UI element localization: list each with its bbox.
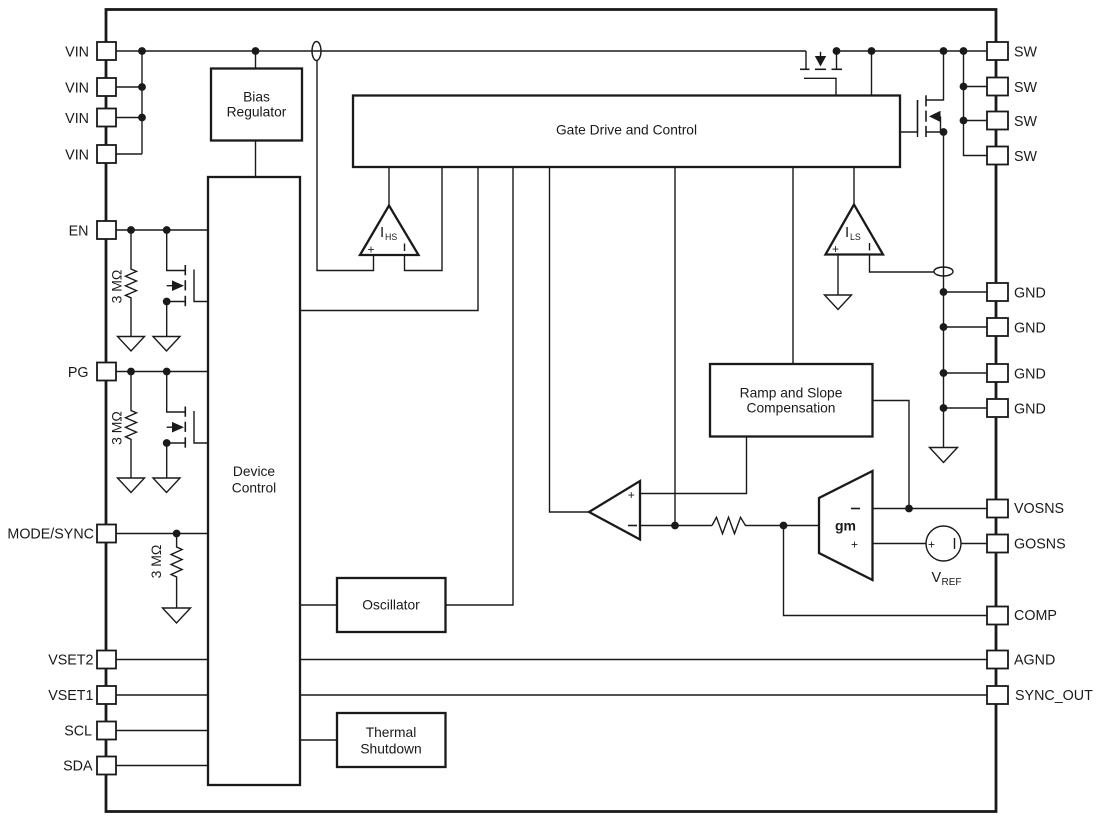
svg-text:GND: GND: [1014, 367, 1046, 383]
wire current sense from top rail loop down: [317, 61, 374, 271]
wire IHS apex to gate drive: [388, 167, 390, 206]
svg-text:+: +: [368, 243, 375, 257]
svg-text:GND: GND: [1014, 321, 1046, 337]
wire ILS plus input to ground: [837, 255, 839, 296]
svg-text:Oscillator: Oscillator: [362, 598, 420, 613]
ground at ILS plus input: [825, 295, 852, 310]
wire GND3 stub: [944, 372, 988, 374]
svg-text:VIN: VIN: [65, 148, 89, 164]
current sense loop on top rail: [312, 42, 321, 61]
svg-text:VOSNS: VOSNS: [1014, 501, 1064, 517]
pin GND2: [987, 318, 1008, 336]
wire ramp block output to vosns node: [873, 401, 910, 509]
node HS source junction: [833, 47, 841, 55]
wire SCL to device control: [116, 730, 208, 732]
svg-text:GND: GND: [1014, 402, 1046, 418]
node HS gate-drive junction: [868, 47, 876, 55]
svg-text:REF: REF: [942, 577, 962, 588]
resistor 3 Mohm at PG: [109, 372, 137, 479]
wire GND2 stub: [944, 326, 988, 328]
resistor 3 Mohm at MODE/SYNC: [148, 534, 182, 609]
wire bias regulator to device control: [255, 141, 257, 178]
pin VIN3: [97, 109, 116, 127]
pin VOSNS: [987, 500, 1008, 518]
svg-text:VIN: VIN: [65, 81, 89, 97]
wire device control to oscillator: [300, 604, 337, 606]
transistor EN pulldown FET: [167, 230, 208, 337]
node EN FET source junction: [163, 298, 171, 306]
svg-text:Shutdown: Shutdown: [360, 742, 421, 757]
pin SW2: [987, 78, 1008, 96]
wire SW pin bus: [964, 51, 988, 156]
pin SW4: [987, 147, 1008, 165]
transistor low-side FET: [900, 95, 941, 137]
node VOSNS junction: [905, 505, 913, 513]
svg-text:Ramp and Slope: Ramp and Slope: [740, 386, 843, 401]
pin MODE/SYNC: [97, 525, 116, 543]
block Thermal Shutdown: [337, 713, 446, 767]
svg-text:VIN: VIN: [65, 45, 89, 61]
pin PG: [97, 363, 116, 381]
wire HS FET source to SW rail: [836, 50, 987, 52]
svg-text:gm: gm: [835, 518, 856, 534]
svg-text:VSET1: VSET1: [48, 688, 93, 704]
wire VREF to GOSNS: [961, 543, 987, 545]
svg-text:GOSNS: GOSNS: [1014, 537, 1066, 553]
wire MODE/SYNC to device control: [116, 533, 208, 535]
ground at PG FET: [153, 478, 180, 493]
pin GOSNS: [987, 535, 1008, 553]
wire IHS output to gate drive: [405, 167, 443, 271]
wire gm minus input to VOSNS: [873, 508, 988, 510]
wire gate drive to comparator minus node: [674, 167, 676, 526]
wire device control to gate drive: [300, 167, 478, 311]
svg-text:EN: EN: [69, 224, 89, 240]
pin GND1: [987, 283, 1008, 301]
node PG FET junction: [163, 368, 171, 376]
wire HS gate to gate drive top: [871, 51, 873, 96]
pin SCL: [97, 722, 116, 740]
wire comp node to COMP pin: [784, 526, 988, 616]
ground at EN FET: [153, 337, 180, 352]
node SW bus junction: [960, 47, 968, 55]
pin VIN1: [97, 42, 116, 60]
op-amp ILS current sense: [826, 205, 884, 257]
svg-text:3 MΩ: 3 MΩ: [109, 411, 125, 445]
wire comparator output to gate drive: [550, 167, 590, 512]
node GND3 junction: [940, 369, 948, 377]
wire gm plus input to VREF: [873, 543, 927, 545]
svg-text:I: I: [380, 224, 384, 241]
wire SDA to device control: [116, 765, 208, 767]
pin VSET1: [97, 686, 116, 704]
block Bias Regulator: [211, 69, 302, 141]
svg-text:V: V: [932, 570, 942, 586]
svg-text:Regulator: Regulator: [227, 105, 287, 120]
svg-text:+: +: [832, 242, 839, 256]
wire VSET2 row and AGND row: [116, 659, 987, 661]
wire VIN4 stub: [116, 153, 142, 155]
svg-text:+: +: [628, 488, 635, 502]
pin VIN2: [97, 78, 116, 96]
node EN resistor junction: [127, 226, 135, 234]
svg-text:SW: SW: [1014, 80, 1038, 96]
wire VIN top rail to HS FET: [142, 50, 806, 52]
transistor high-side FET: [800, 51, 842, 96]
node bias feed junction: [252, 47, 260, 55]
wire SW node down to LS FET drain: [927, 51, 944, 100]
op-amp IHS current sense: [360, 206, 419, 257]
pin AGND: [987, 651, 1008, 669]
pin SW1: [987, 42, 1008, 60]
ground at GND bus bottom: [930, 448, 958, 463]
svg-text:+: +: [928, 538, 935, 552]
svg-text:Device: Device: [233, 464, 275, 479]
svg-text:SW: SW: [1014, 45, 1038, 61]
wire GND1 stub: [944, 291, 988, 293]
svg-text:SW: SW: [1014, 114, 1038, 130]
svg-text:Compensation: Compensation: [747, 401, 836, 416]
svg-text:+: +: [851, 538, 858, 552]
ground at MODE/SYNC resistor: [163, 608, 191, 623]
op-amp PWM comparator: [589, 481, 640, 540]
wire SW3 stub: [964, 120, 988, 122]
node SW to LS drain junction: [940, 47, 948, 55]
wire oscillator to gate drive: [446, 167, 514, 605]
svg-text:3 MΩ: 3 MΩ: [148, 545, 164, 579]
wire gate drive to ramp block: [792, 167, 794, 364]
node VIN1 junction: [138, 47, 146, 55]
node LS source junction: [940, 128, 948, 136]
pin EN: [97, 221, 116, 239]
wire PG to device control: [116, 371, 208, 373]
pin GND4: [987, 399, 1008, 417]
wire GND4 stub: [944, 407, 988, 409]
wire VIN3 stub: [116, 117, 142, 119]
pin SW3: [987, 112, 1008, 130]
wire LS FET source to GND bus: [927, 132, 944, 448]
ground at PG resistor: [118, 478, 145, 493]
node SW2 junction: [960, 83, 968, 91]
pin GND3: [987, 364, 1008, 382]
svg-text:SW: SW: [1014, 149, 1038, 165]
wire VIN2 stub: [116, 86, 142, 88]
op-amp gm error amplifier: [819, 471, 873, 580]
node comparator minus junction: [671, 522, 679, 530]
block Gate Drive and Control: [353, 96, 900, 168]
node COMP tap junction: [780, 522, 788, 530]
wire gm output to resistor: [748, 525, 819, 527]
wire VIN1 stub: [116, 50, 142, 52]
wire VIN bus vertical: [141, 51, 143, 154]
node PG resistor junction: [127, 368, 135, 376]
wire ramp block to comparator plus: [640, 437, 747, 494]
node SW3 junction: [960, 117, 968, 125]
node PG FET source junction: [163, 439, 171, 447]
svg-text:PG: PG: [68, 365, 89, 381]
svg-text:COMP: COMP: [1014, 608, 1057, 624]
node MODE/SYNC resistor junction: [173, 530, 181, 538]
svg-text:Gate Drive and Control: Gate Drive and Control: [556, 123, 697, 138]
svg-text:Bias: Bias: [243, 90, 270, 105]
svg-text:SDA: SDA: [63, 759, 93, 775]
wire ILS apex to gate drive: [853, 167, 855, 205]
wire device control to thermal shutdown: [300, 739, 337, 741]
pin COMP: [987, 607, 1008, 625]
current sense loop on GND bus: [934, 267, 953, 276]
pin VIN4: [97, 145, 116, 163]
svg-text:3 MΩ: 3 MΩ: [109, 270, 125, 304]
svg-text:AGND: AGND: [1014, 653, 1055, 669]
svg-text:GND: GND: [1014, 286, 1046, 302]
svg-text:VIN: VIN: [65, 111, 89, 127]
wire SW2 stub: [964, 86, 988, 88]
svg-text:Control: Control: [232, 481, 276, 496]
wire comparator minus line left: [640, 525, 712, 527]
pin SYNC_OUT: [987, 686, 1008, 704]
pin VSET2: [97, 651, 116, 669]
node EN FET junction: [163, 226, 171, 234]
svg-text:Thermal: Thermal: [366, 725, 417, 740]
block Ramp and Slope Compensation: [710, 364, 873, 437]
resistor between gm and comparator: [712, 517, 748, 533]
node GND4 junction: [940, 404, 948, 412]
ground at EN resistor: [118, 337, 145, 352]
resistor 3 Mohm at EN: [109, 230, 137, 337]
svg-text:VSET2: VSET2: [48, 653, 93, 669]
svg-text:HS: HS: [385, 232, 397, 242]
svg-text:LS: LS: [850, 232, 861, 242]
svg-text:SYNC_OUT: SYNC_OUT: [1015, 688, 1093, 704]
svg-text:I: I: [845, 224, 849, 241]
transistor PG pulldown FET: [167, 372, 208, 479]
node GND1 junction: [940, 288, 948, 296]
wire EN to device control: [116, 229, 208, 231]
svg-text:MODE/SYNC: MODE/SYNC: [7, 527, 94, 543]
wire ILS sense input to loop: [870, 255, 935, 273]
node VIN3 junction: [138, 114, 146, 122]
IC outer boundary: [106, 10, 996, 812]
pin SDA: [97, 757, 116, 775]
wire VSET1 row and SYNC_OUT row: [116, 694, 987, 696]
svg-text:SCL: SCL: [64, 724, 92, 740]
block Oscillator: [337, 578, 446, 632]
node VIN2 junction: [138, 83, 146, 91]
node GND2 junction: [940, 323, 948, 331]
block Device Control: [208, 177, 300, 785]
wire bias regulator feed: [255, 51, 257, 69]
voltage source VREF: [926, 526, 962, 588]
